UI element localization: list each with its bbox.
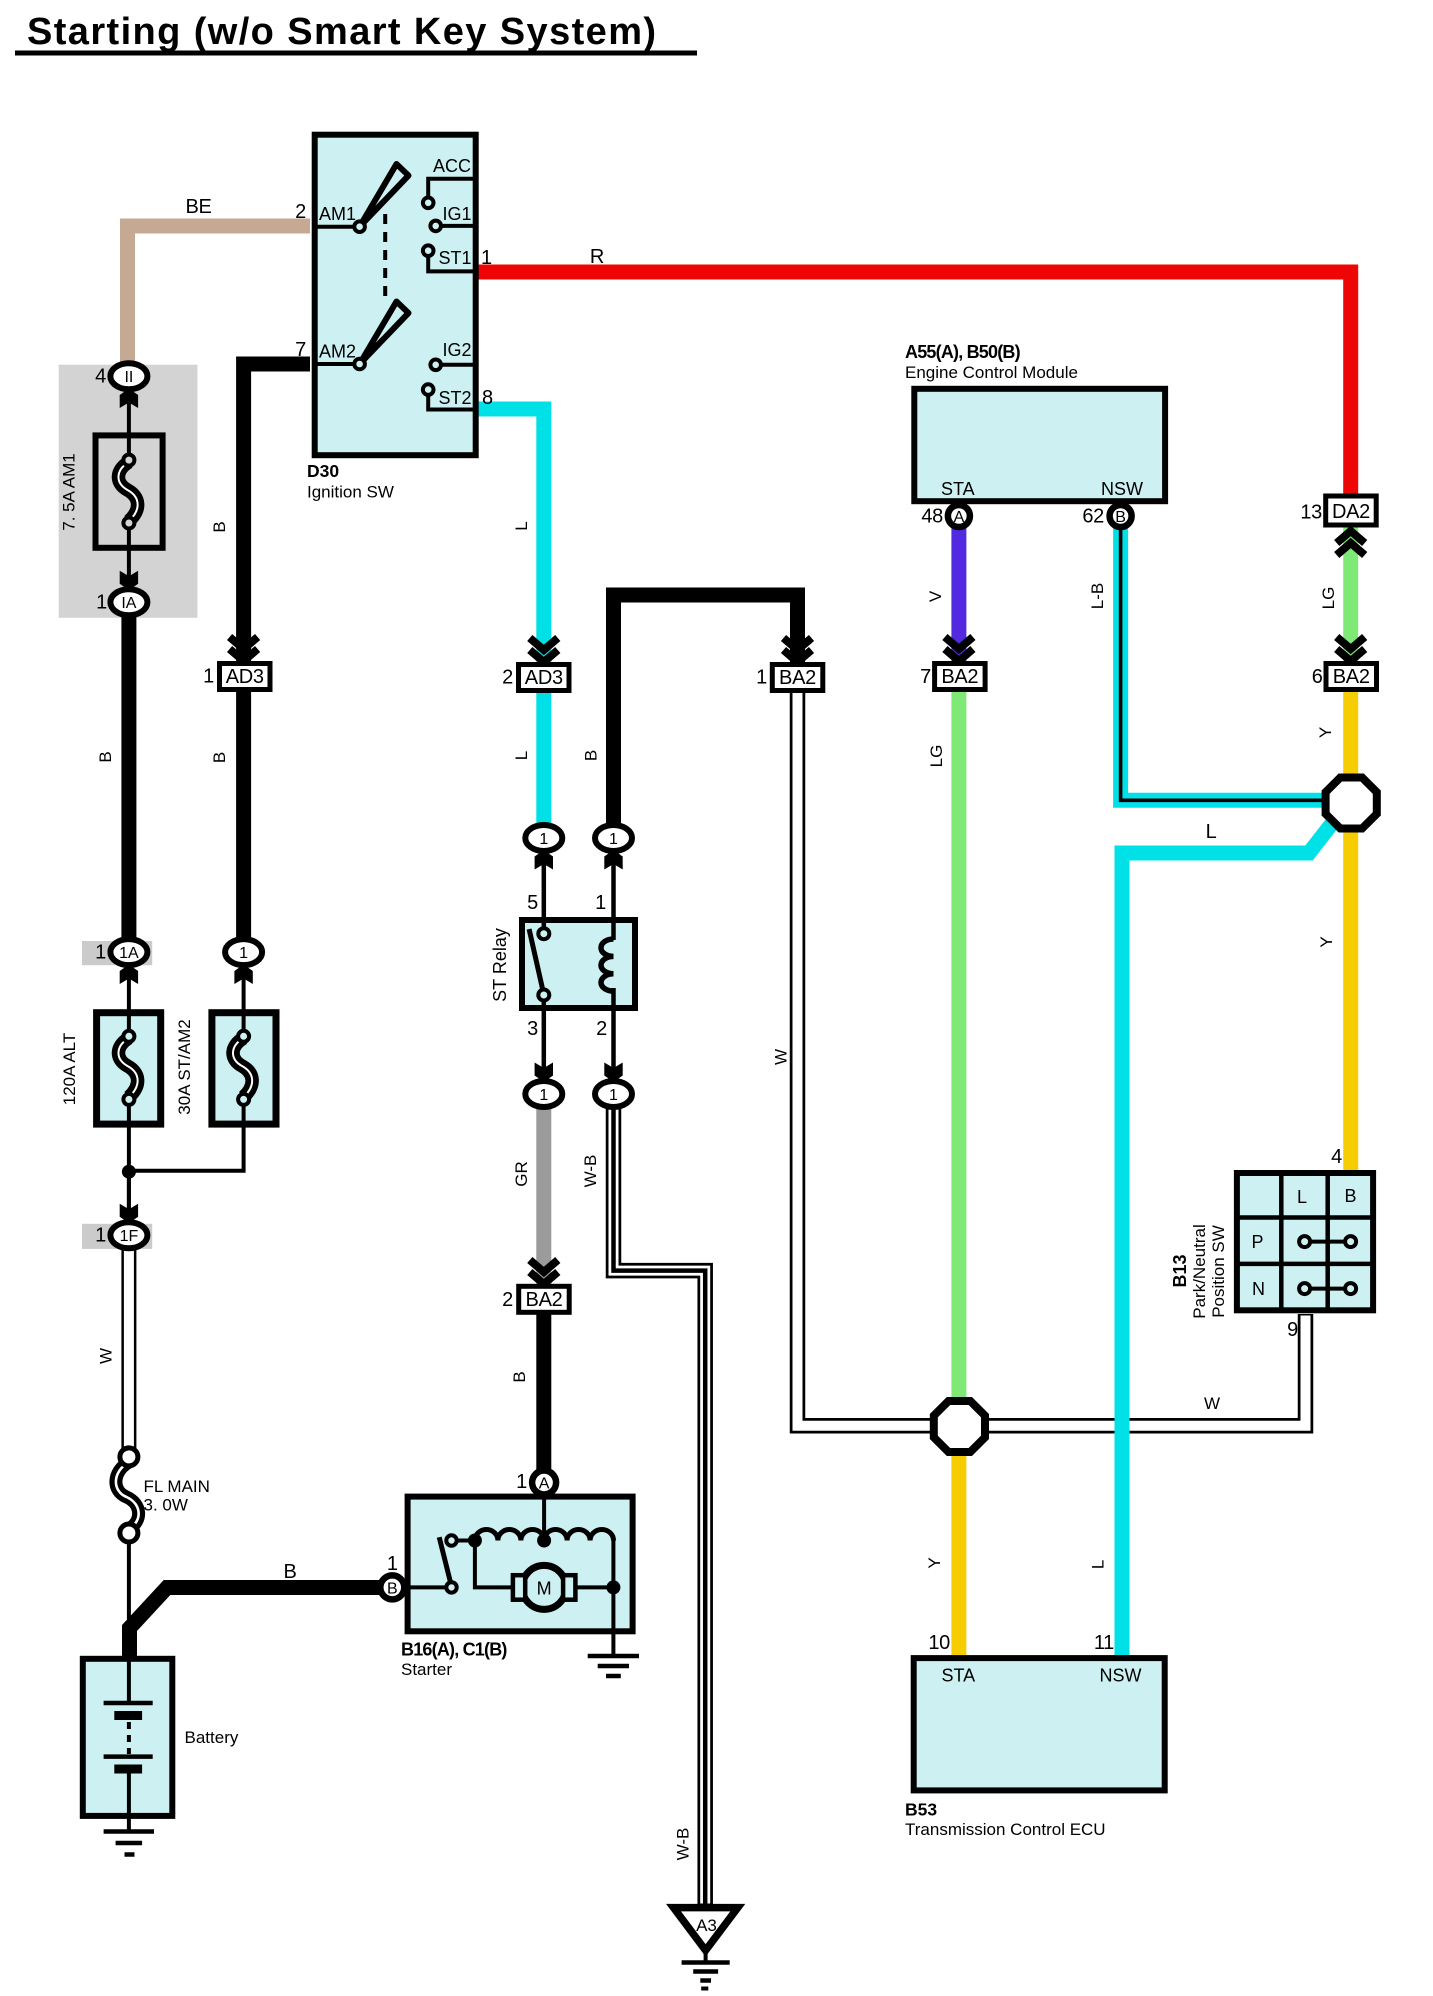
- battery box: [83, 1659, 173, 1816]
- svg-text:LG: LG: [927, 745, 946, 768]
- ignition IG2 terminal: [436, 363, 473, 367]
- svg-text:9: 9: [1287, 1319, 1298, 1341]
- svg-text:8: 8: [482, 387, 493, 409]
- svg-text:IA: IA: [121, 595, 136, 612]
- svg-text:BA2: BA2: [779, 667, 816, 689]
- battery cell 2: [104, 1754, 153, 1759]
- chevron arrows up into DA2: [1337, 531, 1365, 555]
- connector box BA2-6: [1326, 664, 1377, 690]
- svg-text:1: 1: [95, 942, 106, 964]
- fuse 120A ALT element: [118, 1038, 137, 1097]
- svg-text:Park/Neutral: Park/Neutral: [1190, 1224, 1209, 1318]
- svg-text:BE: BE: [185, 196, 211, 218]
- connector oval IA: [110, 589, 147, 615]
- wire Y yellow from BA2-6 through splice to park/neutral switch pin 4: [1343, 687, 1358, 1172]
- starter terminal B circle: [380, 1575, 404, 1599]
- svg-text:4: 4: [1331, 1146, 1342, 1168]
- relay oval pin 3: [525, 1081, 562, 1107]
- battery internal top lead: [127, 1659, 131, 1703]
- svg-text:48: 48: [921, 506, 943, 528]
- svg-text:STA: STA: [942, 1666, 976, 1686]
- starter switch contacts: [446, 1535, 456, 1545]
- svg-text:GR: GR: [512, 1161, 531, 1187]
- B13 P row contact: [1305, 1240, 1351, 1244]
- wire B black from relay oval pin1 up and to connector BA2-1: [614, 595, 798, 830]
- svg-text:1: 1: [539, 1087, 548, 1104]
- A3 ground lead: [704, 1950, 708, 1961]
- svg-text:5: 5: [527, 892, 538, 914]
- ignition AM2 terminal line: [317, 362, 360, 366]
- svg-text:10: 10: [928, 1632, 950, 1654]
- connector box BA2-2: [519, 1286, 570, 1312]
- svg-text:Y: Y: [925, 1557, 944, 1568]
- svg-text:IG2: IG2: [442, 340, 471, 360]
- chevron arrows into BA2-7: [945, 637, 973, 661]
- park/neutral switch B13 box: [1237, 1173, 1373, 1310]
- svg-text:L: L: [1088, 1560, 1107, 1569]
- svg-text:M: M: [537, 1579, 552, 1599]
- svg-text:AM1: AM1: [319, 204, 356, 224]
- ignition ACC terminal: [428, 179, 473, 200]
- svg-text:W: W: [772, 1049, 791, 1065]
- svg-text:1: 1: [239, 945, 248, 962]
- svg-text:IG1: IG1: [442, 204, 471, 224]
- wire W-B white-black from relay oval pin2 down and right to ground A3: [614, 1104, 706, 1905]
- splice octagon left: [934, 1401, 985, 1452]
- wire LG light green from BA2-7 to splice octagon: [951, 689, 966, 1403]
- starter switch lever: [439, 1537, 451, 1586]
- relay oval pin 5: [525, 825, 562, 851]
- svg-text:D30: D30: [307, 461, 339, 481]
- svg-text:AM2: AM2: [319, 342, 356, 362]
- svg-text:1: 1: [595, 892, 606, 914]
- ST relay switch contacts: [538, 928, 549, 939]
- wire L cyan from AD3-2 to ST relay pin5 oval: [536, 689, 551, 830]
- ST relay coil: [601, 939, 614, 991]
- svg-text:BA2: BA2: [526, 1289, 563, 1311]
- wire W white from connector 1F to fusible link FL MAIN: [121, 1247, 136, 1450]
- svg-text:L: L: [512, 521, 531, 530]
- ignition lever link dashed line: [383, 214, 387, 301]
- wire B black from battery to starter terminal B: [130, 1588, 383, 1661]
- ST relay pin5 lead: [542, 853, 547, 933]
- battery internal bottom lead: [127, 1774, 131, 1832]
- svg-text:B: B: [1115, 509, 1126, 526]
- fuse 120A ALT box: [97, 1013, 161, 1124]
- B13 N row contact: [1305, 1287, 1351, 1291]
- connector box AD3-1: [220, 664, 271, 690]
- svg-text:1: 1: [95, 1225, 106, 1247]
- ECM box: [914, 389, 1165, 501]
- arrow up into oval 1A: [120, 965, 138, 985]
- connector oval 1 of 30A fuse: [225, 939, 262, 965]
- fuse 30A ST/AM2 element: [233, 1038, 252, 1097]
- connector oval 1F: [110, 1222, 147, 1248]
- svg-text:BA2: BA2: [941, 666, 978, 688]
- svg-text:B: B: [510, 1371, 529, 1382]
- svg-text:3. 0W: 3. 0W: [144, 1496, 188, 1515]
- starter motor M: [522, 1565, 566, 1609]
- wire L cyan from right splice octagon to TCM pin 11: [1122, 817, 1337, 1656]
- grey highlight behind connector 1F: [82, 1224, 152, 1249]
- starter leads to motor: [475, 1541, 514, 1588]
- ignition AM1 key lever: [360, 164, 409, 227]
- ignition IG1 terminal: [436, 224, 473, 228]
- svg-text:ACC: ACC: [433, 156, 471, 176]
- arrow down into relay oval 3: [535, 1063, 553, 1083]
- junction block grey area: [59, 365, 198, 618]
- arrow down into relay oval 2: [604, 1063, 622, 1083]
- wire W white from connector BA2-1 to splice octagon: [798, 689, 946, 1426]
- svg-text:A3: A3: [696, 1916, 717, 1935]
- svg-text:B53: B53: [905, 1800, 937, 1820]
- svg-text:L: L: [1297, 1187, 1307, 1207]
- svg-text:1F: 1F: [120, 1228, 139, 1245]
- B13 grid lines: [1279, 1172, 1284, 1311]
- chevron arrows into BA2-6: [1337, 637, 1365, 661]
- svg-text:1: 1: [96, 592, 107, 614]
- svg-text:B: B: [96, 751, 115, 762]
- starter lead from terminal A: [542, 1494, 546, 1541]
- fuse 7.5A AM1 element: [118, 462, 137, 521]
- svg-text:1: 1: [481, 247, 492, 269]
- splice octagon right: [1326, 778, 1377, 829]
- ST relay pin1 lead: [611, 853, 616, 940]
- starter line contact to coil junction: [456, 1539, 475, 1543]
- svg-text:7: 7: [295, 339, 306, 361]
- svg-text:Engine Control Module: Engine Control Module: [905, 363, 1078, 382]
- arrow down into oval IA: [120, 571, 138, 591]
- svg-text:Y: Y: [1316, 727, 1335, 738]
- arrow up into oval 1 of 30A fuse: [234, 965, 252, 985]
- svg-text:11: 11: [1094, 1632, 1114, 1654]
- ECM pin A circle: [948, 505, 970, 527]
- svg-text:BA2: BA2: [1333, 666, 1370, 688]
- chevron arrows into BA2-1: [784, 638, 812, 662]
- grey highlight behind connector 1A: [82, 941, 152, 965]
- svg-text:1: 1: [539, 831, 548, 848]
- svg-text:II: II: [124, 369, 133, 386]
- svg-text:2: 2: [502, 1289, 513, 1311]
- svg-text:B: B: [582, 750, 601, 761]
- ST relay box: [522, 920, 635, 1008]
- battery cell 1: [104, 1701, 153, 1706]
- svg-text:ST2: ST2: [438, 388, 471, 408]
- svg-text:1: 1: [609, 831, 618, 848]
- svg-text:3: 3: [527, 1018, 538, 1040]
- svg-text:W-B: W-B: [581, 1155, 600, 1188]
- connector box AD3-2: [519, 665, 570, 691]
- svg-text:AD3: AD3: [525, 667, 563, 689]
- svg-text:4: 4: [95, 366, 106, 388]
- fuse 7.5A AM1 box: [96, 435, 163, 547]
- ignition switch D30 box: [315, 135, 476, 456]
- svg-text:B: B: [210, 521, 229, 532]
- ignition AM1 pivot contact: [354, 221, 365, 232]
- svg-text:W: W: [1204, 1394, 1220, 1413]
- svg-text:FL MAIN: FL MAIN: [144, 1477, 210, 1496]
- svg-text:L: L: [1206, 821, 1217, 843]
- svg-text:Starting (w/o Smart Key System: Starting (w/o Smart Key System): [27, 11, 657, 53]
- starter ground lead: [611, 1587, 615, 1655]
- svg-text:1: 1: [516, 1471, 527, 1493]
- svg-text:ST Relay: ST Relay: [490, 928, 510, 1002]
- fusible link FL MAIN: [116, 1448, 139, 1658]
- ignition AM1 terminal line: [317, 225, 360, 229]
- starter ground junction dot: [606, 1580, 620, 1594]
- wire to connector 1F: [127, 1172, 131, 1216]
- wire R red from ignition ST1 to DA2: [476, 272, 1351, 497]
- svg-text:2: 2: [295, 201, 306, 223]
- wire LG light green from DA2 to connector BA2-6: [1343, 526, 1358, 662]
- svg-text:A: A: [539, 1476, 550, 1493]
- arrow up into oval II: [120, 389, 138, 409]
- fuse 30A ST/AM2 leads: [242, 975, 246, 1032]
- svg-text:B13: B13: [1170, 1254, 1190, 1287]
- wire Y yellow from splice octagon to TCM pin 10: [951, 1449, 966, 1656]
- starter ground symbol: [588, 1654, 639, 1659]
- ST relay pin2 lead: [611, 988, 616, 1085]
- wire GR grey from relay oval pin3 to connector BA2-2: [536, 1104, 551, 1284]
- svg-text:Battery: Battery: [185, 1728, 239, 1747]
- starter terminal A circle: [532, 1471, 556, 1495]
- arrow up into relay oval 5: [535, 850, 553, 870]
- svg-text:ST1: ST1: [438, 248, 471, 268]
- connector box DA2: [1326, 496, 1377, 525]
- svg-text:Position SW: Position SW: [1209, 1225, 1228, 1318]
- chevron arrows into BA2-2: [530, 1260, 558, 1284]
- battery cell link dashed: [127, 1722, 131, 1754]
- svg-text:L-B: L-B: [1088, 583, 1107, 609]
- svg-text:LG: LG: [1319, 587, 1338, 610]
- arrow up into relay oval 1: [604, 850, 622, 870]
- battery ground symbol: [104, 1829, 154, 1834]
- svg-text:30A ST/AM2: 30A ST/AM2: [175, 1019, 194, 1114]
- svg-text:1: 1: [609, 1087, 618, 1104]
- svg-text:7: 7: [920, 666, 931, 688]
- svg-text:2: 2: [596, 1018, 607, 1040]
- svg-text:1: 1: [203, 666, 214, 688]
- svg-text:W: W: [97, 1348, 116, 1364]
- connector oval II: [110, 363, 147, 389]
- svg-text:N: N: [1252, 1279, 1265, 1299]
- connector box BA2-7: [935, 664, 986, 690]
- svg-text:2: 2: [502, 667, 513, 689]
- svg-text:W-B: W-B: [674, 1828, 693, 1861]
- chevron arrows into AD3-2: [530, 638, 558, 662]
- junction dot of fuse outputs: [122, 1165, 136, 1179]
- svg-text:B: B: [210, 752, 229, 763]
- wire B black from ignition AM2 to connector AD3-1: [244, 364, 310, 661]
- svg-text:62: 62: [1082, 506, 1104, 528]
- A3 ground symbol: [682, 1960, 730, 1965]
- ground connector A3 triangle: [674, 1908, 738, 1951]
- wire B black between AD3-1 and oval 1 of 30A fuse: [236, 689, 251, 941]
- wire B black between ovals IA and 1A: [121, 610, 136, 941]
- connector box BA2-1: [772, 665, 823, 691]
- svg-text:Y: Y: [1317, 936, 1336, 947]
- svg-text:L: L: [512, 751, 531, 760]
- svg-text:AD3: AD3: [226, 666, 264, 688]
- svg-text:NSW: NSW: [1100, 1666, 1142, 1686]
- svg-text:V: V: [926, 590, 945, 602]
- fuse 7.5A AM1 wire through: [127, 400, 131, 455]
- svg-text:1: 1: [756, 667, 767, 689]
- svg-text:Starter: Starter: [401, 1660, 452, 1679]
- svg-text:Ignition SW: Ignition SW: [307, 483, 394, 502]
- wire BE tan from fuse block to ignition AM1: [128, 226, 311, 368]
- svg-text:120A ALT: 120A ALT: [60, 1033, 79, 1105]
- svg-text:13: 13: [1300, 502, 1322, 524]
- ignition ST1 terminal: [428, 253, 473, 271]
- svg-text:B: B: [1344, 1186, 1356, 1206]
- wire B black from BA2-2 to starter terminal A: [536, 1311, 551, 1472]
- ST relay switch lever: [529, 929, 544, 994]
- svg-text:A55(A), B50(B): A55(A), B50(B): [905, 342, 1021, 362]
- fuse 30A ST/AM2 box: [212, 1013, 276, 1124]
- svg-text:STA: STA: [941, 479, 975, 499]
- wire W white from park/neutral switch pin 9 to splice octagon: [975, 1314, 1306, 1426]
- svg-text:DA2: DA2: [1332, 501, 1370, 523]
- svg-text:P: P: [1251, 1232, 1263, 1252]
- connector oval 1A: [110, 939, 147, 965]
- ignition AM2 key lever: [360, 302, 409, 365]
- svg-text:1A: 1A: [119, 945, 139, 962]
- starter box B16(A) C1(B): [408, 1497, 633, 1632]
- ignition ST2 terminal: [428, 392, 473, 410]
- starter terminal B line: [404, 1585, 446, 1589]
- wire L cyan from ignition ST2 to connector AD3-2: [476, 409, 544, 662]
- fuse 120A ALT leads: [127, 975, 131, 1032]
- svg-text:6: 6: [1312, 666, 1323, 688]
- chevron arrows into AD3-1: [230, 637, 258, 661]
- wire L-B cyan-black from ECM pin B to right splice octagon: [1121, 525, 1327, 800]
- wire V violet from ECM pin A to connector BA2-7: [951, 525, 966, 662]
- svg-text:B16(A), C1(B): B16(A), C1(B): [401, 1640, 507, 1660]
- svg-text:Transmission Control ECU: Transmission Control ECU: [905, 1820, 1106, 1839]
- TCM box B53: [914, 1658, 1165, 1790]
- svg-text:NSW: NSW: [1101, 479, 1143, 499]
- svg-text:7. 5A AM1: 7. 5A AM1: [60, 453, 79, 531]
- ignition AM2 pivot contact: [354, 359, 365, 370]
- svg-text:1: 1: [387, 1553, 398, 1575]
- starter pull-in coil: [544, 1529, 613, 1540]
- svg-text:B: B: [387, 1581, 398, 1598]
- arrow down into oval 1F: [120, 1204, 138, 1224]
- svg-text:B: B: [283, 1561, 296, 1583]
- ST relay pin3 lead: [542, 995, 547, 1085]
- svg-text:A: A: [954, 509, 965, 526]
- starter coil junction dots: [468, 1534, 482, 1548]
- svg-text:R: R: [590, 246, 604, 268]
- ECM pin B circle: [1110, 505, 1132, 527]
- starter hold-in coil: [475, 1530, 544, 1541]
- relay oval pin 2: [595, 1081, 632, 1107]
- title: [15, 11, 697, 56]
- relay oval pin 1: [595, 825, 632, 851]
